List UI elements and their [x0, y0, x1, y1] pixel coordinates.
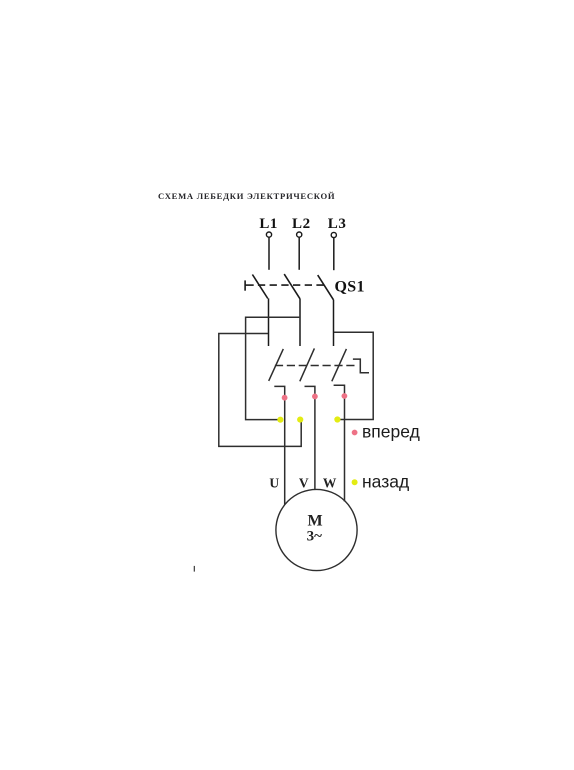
- svg-text:L3: L3: [328, 216, 347, 232]
- contactor pole 3 blade: [332, 349, 347, 381]
- terminal L3: [331, 232, 336, 237]
- contactor pole 2 blade: [300, 348, 315, 381]
- svg-text:U: U: [269, 475, 279, 490]
- motor M circle: [276, 489, 357, 570]
- svg-text:V: V: [299, 475, 309, 490]
- svg-text:3~: 3~: [307, 529, 323, 545]
- wire L2 to QS1: [298, 237, 300, 269]
- legend dot вперед: [352, 430, 358, 436]
- svg-text:назад: назад: [362, 471, 409, 491]
- contactor dashed linkage: [275, 365, 356, 367]
- stray tick mark: [194, 566, 195, 572]
- contactor pole3 bottom terminal + wire W to motor: [334, 385, 345, 501]
- wire QS1 pole3 down to contactor: [333, 300, 335, 346]
- contactor pole 1 blade: [269, 349, 284, 381]
- terminal L2: [297, 232, 302, 237]
- terminal L1: [266, 232, 271, 237]
- svg-text:QS1: QS1: [335, 279, 365, 296]
- svg-text:М: М: [307, 513, 322, 530]
- switch QS1 pole 2 blade: [284, 274, 300, 299]
- switch QS1 dashed linkage: [258, 284, 327, 286]
- wire B: L1 tap around left to yellow node 2: [219, 334, 301, 447]
- switch QS1 handle bar: [244, 280, 246, 290]
- contactor pole1 bottom terminal + wire U to motor: [274, 386, 284, 504]
- legend dot назад: [352, 479, 358, 485]
- svg-text:L1: L1: [259, 216, 278, 232]
- svg-text:вперед: вперед: [362, 421, 420, 441]
- node pink 2 (вперед contact V): [312, 394, 318, 400]
- node yellow 3 (назад contact W): [334, 416, 340, 422]
- contactor actuator step: [353, 359, 369, 373]
- switch QS1 pole 1 blade: [252, 275, 267, 299]
- node pink 3 (вперед contact W): [342, 393, 348, 399]
- wire QS1 pole1 down to contactor: [268, 298, 270, 346]
- node pink 1 (вперед contact U): [282, 395, 288, 401]
- wire L1 to QS1: [268, 237, 270, 269]
- switch QS1 pole 3 blade: [318, 275, 334, 300]
- wire L3 to QS1: [333, 238, 335, 270]
- svg-text:СХЕМА ЛЕБЕДКИ ЭЛЕКТРИЧЕСКОЙ: СХЕМА ЛЕБЕДКИ ЭЛЕКТРИЧЕСКОЙ: [158, 191, 335, 201]
- contactor pole2 bottom terminal + wire V to motor: [305, 386, 315, 490]
- wire C: L3 tap around right to yellow node 3: [334, 332, 373, 419]
- wire A: L2 tap to yellow node 1: [246, 317, 300, 419]
- node yellow 2 (назад contact): [297, 417, 303, 423]
- svg-text:L2: L2: [292, 216, 311, 232]
- svg-text:W: W: [323, 475, 337, 490]
- wire QS1 pole2 down to contactor: [299, 299, 301, 346]
- node yellow 1 (назад contact U): [277, 417, 283, 423]
- switch QS1 linkage solid lead: [245, 284, 254, 286]
